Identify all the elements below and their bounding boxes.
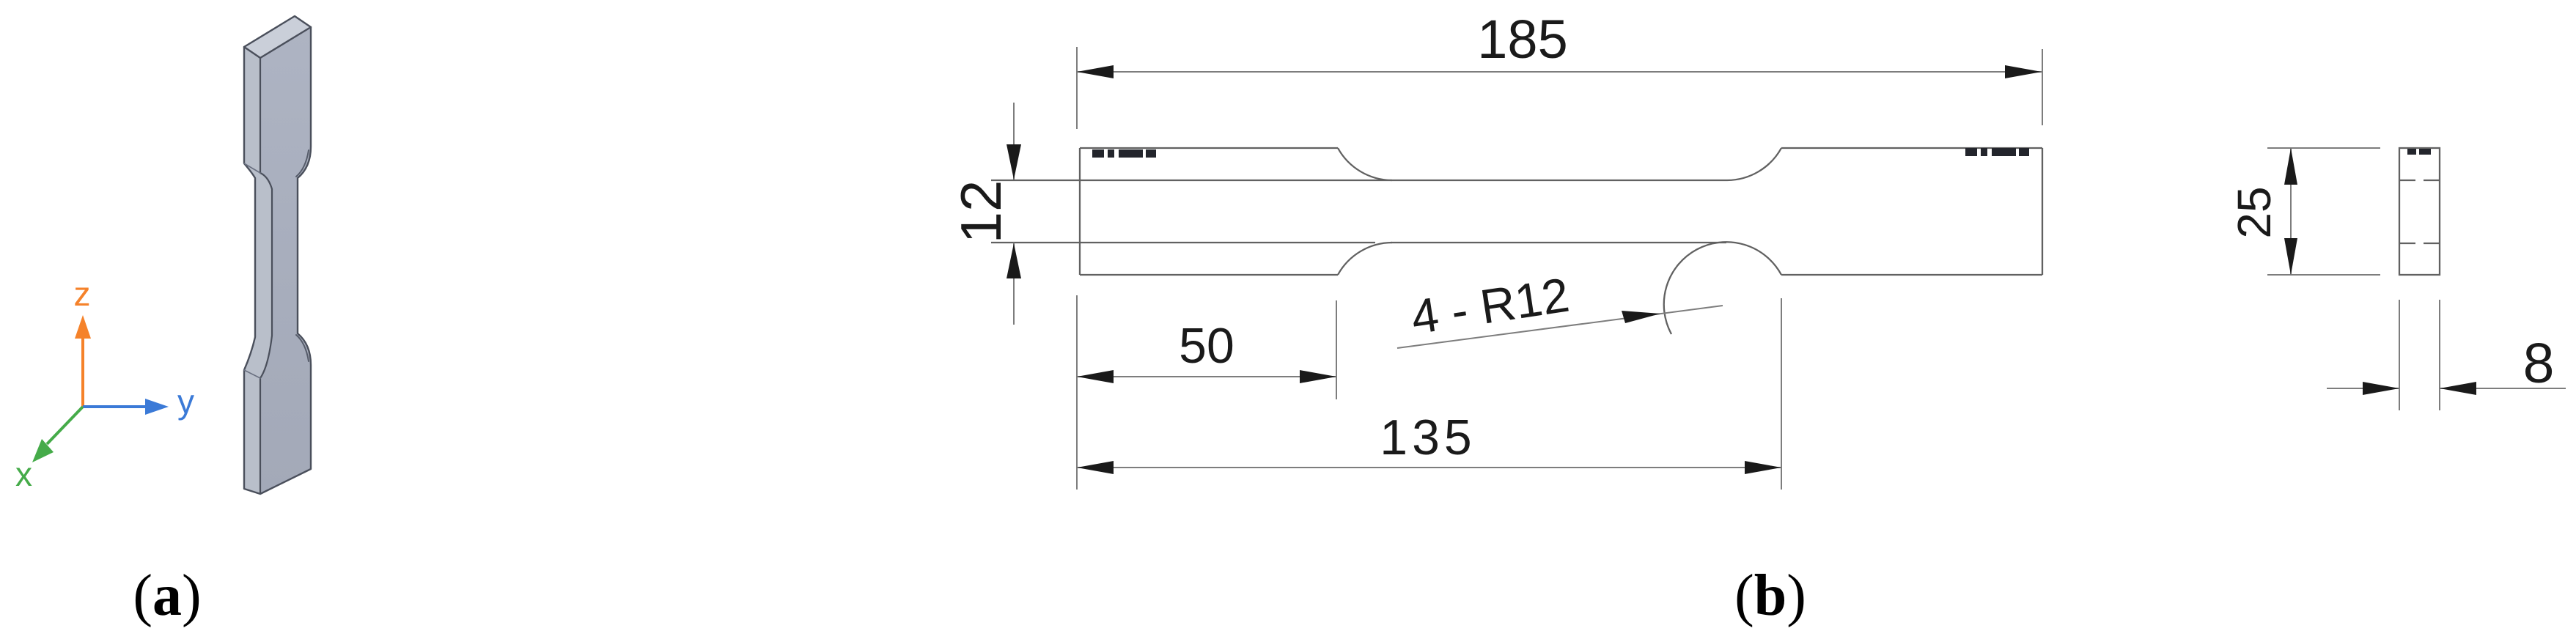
- side view rectangle: [2399, 148, 2440, 275]
- specimen internal corner edge: [260, 58, 272, 494]
- svg-text:(b): (b): [1734, 564, 1806, 628]
- arrow 25 top: [2284, 148, 2297, 185]
- ext line 50 right: [1336, 300, 1337, 399]
- ext line 8 left: [2399, 300, 2400, 410]
- neck bottom edge + extension: [991, 242, 1726, 243]
- arrow 135 left: [1077, 461, 1114, 474]
- specimen outline front view: [1079, 148, 1081, 275]
- ext line 8 right: [2439, 300, 2440, 410]
- ext line 25 top: [2267, 147, 2380, 149]
- specimen narrow side strip: [244, 47, 272, 494]
- arrow 135 right: [1745, 461, 1781, 474]
- dim line 25: [2290, 148, 2292, 275]
- svg-text:x: x: [15, 455, 32, 493]
- ext line 25 bottom: [2267, 274, 2380, 276]
- dim line 185: [1077, 71, 2042, 73]
- arrow 8 left: [2363, 382, 2399, 395]
- z-axis: [81, 337, 84, 407]
- tiny embossed label right: [1965, 148, 2029, 156]
- dim line 12 vertical: [1013, 103, 1015, 325]
- arrow 8 right: [2440, 382, 2476, 395]
- dim line 50: [1077, 376, 1336, 377]
- dim line 135: [1077, 467, 1781, 468]
- arrow 185 left: [1077, 65, 1114, 78]
- leader 4-R12: [1397, 306, 1723, 348]
- specimen right fillet shadow top: [296, 150, 309, 177]
- arrow 50 right: [1300, 370, 1336, 383]
- x-axis: [47, 407, 83, 444]
- specimen outline: [244, 27, 311, 494]
- arrow 12 bottom: [1007, 243, 1021, 278]
- specimen silhouette fill: [244, 16, 311, 494]
- arrow 25 bottom: [2284, 238, 2297, 275]
- svg-text:z: z: [74, 275, 91, 313]
- hidden line bottom: [2399, 243, 2440, 244]
- svg-text:8: 8: [2523, 332, 2555, 395]
- svg-text:135: 135: [1380, 410, 1476, 465]
- svg-text:50: 50: [1179, 318, 1234, 374]
- neck top edge + extension: [991, 180, 1727, 181]
- ext line 50-135 left: [1076, 295, 1078, 490]
- dim line 8: [2327, 388, 2566, 389]
- svg-text:25: 25: [2228, 186, 2281, 238]
- ext line 135 right: [1781, 298, 1782, 490]
- svg-text:185: 185: [1477, 9, 1567, 70]
- arrow 185 right: [2005, 65, 2042, 78]
- svg-text:12: 12: [949, 180, 1013, 244]
- y-axis: [83, 405, 148, 408]
- arrow 50 left: [1077, 370, 1114, 383]
- svg-text:(a): (a): [133, 564, 201, 628]
- ext line 185 right: [2042, 49, 2043, 125]
- hidden line top: [2399, 180, 2440, 181]
- tiny embossed label left: [1092, 149, 1156, 158]
- specimen top face: [244, 16, 311, 58]
- svg-text:y: y: [177, 383, 194, 421]
- specimen fillet edge top-left: [244, 163, 260, 173]
- arrow leader R12: [1622, 311, 1660, 323]
- arrow 12 top: [1007, 144, 1021, 180]
- ext line 185 left: [1076, 47, 1078, 129]
- R12 indicator arc bottom right: [1664, 242, 1781, 334]
- specimen fillet edge bottom-left: [244, 370, 260, 378]
- specimen right fillet shadow bottom: [296, 335, 309, 361]
- tiny embossed label side view: [2407, 149, 2431, 155]
